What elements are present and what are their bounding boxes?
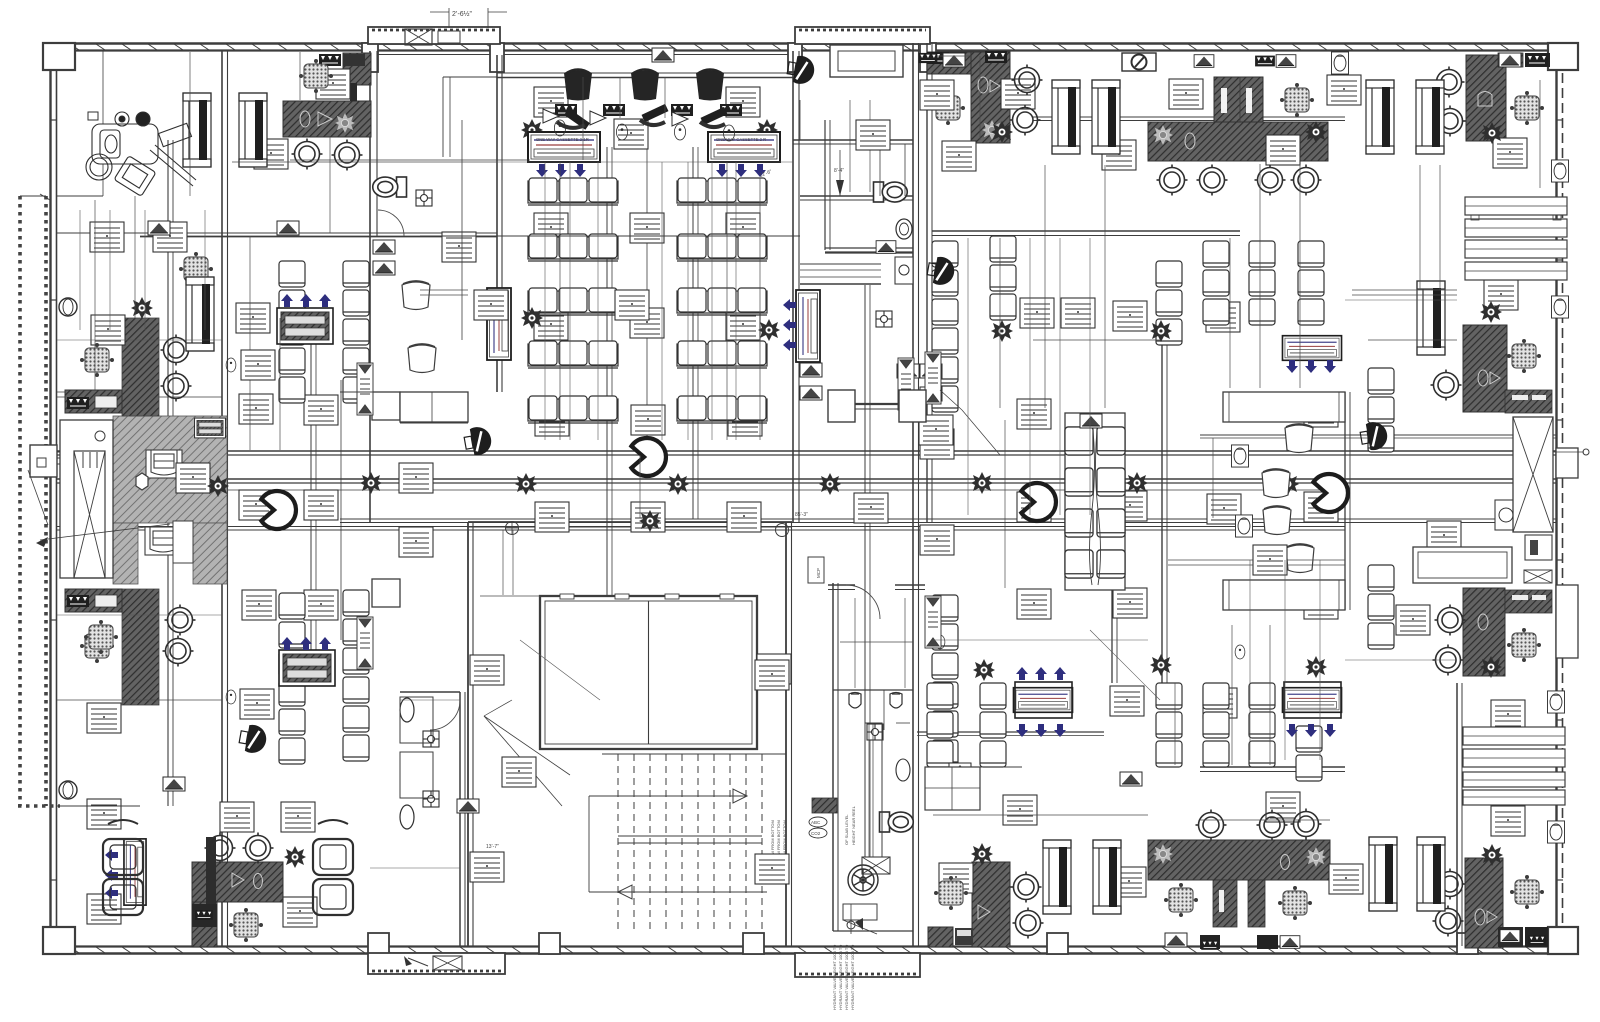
svg-text:MCP: MCP xyxy=(816,568,821,578)
airflow arrow xyxy=(105,887,118,899)
core wall x913 vertical xyxy=(912,43,914,946)
gray hatched zone lower-right xyxy=(193,523,227,584)
top wall column at x497 xyxy=(490,43,504,72)
shelf strip xyxy=(357,617,373,669)
desk xyxy=(942,141,976,171)
long table D2 left lower xyxy=(1223,580,1345,610)
stair arrow down xyxy=(618,885,632,899)
desk xyxy=(1112,867,1146,897)
bottom wall column xyxy=(743,933,764,954)
desk xyxy=(304,590,338,620)
small room box left-mid upper xyxy=(372,392,400,420)
desk xyxy=(854,493,888,523)
desk xyxy=(254,139,288,169)
bottom wall column xyxy=(1047,933,1068,954)
wall x1457 vertical xyxy=(1456,683,1458,946)
shelf strip xyxy=(357,363,373,415)
seat column xyxy=(1249,241,1275,267)
bottom wall column xyxy=(368,933,389,954)
dark chair blocks bottom right-wing xyxy=(1213,880,1237,927)
toilet bottom core xyxy=(880,812,914,832)
stair treads dashed xyxy=(617,754,619,934)
desk xyxy=(1327,75,1361,105)
drain bottom core xyxy=(867,724,883,740)
meeting table D2 xyxy=(1413,547,1512,583)
desk xyxy=(757,654,791,684)
desk xyxy=(1427,521,1461,551)
duct riser x647 xyxy=(646,120,648,455)
bottom core wall x833 xyxy=(832,583,834,931)
cassette D2 top xyxy=(1282,336,1341,361)
dark kitchen counter bottom-left-center xyxy=(192,862,283,902)
task chair xyxy=(1508,340,1541,373)
sprinkler rose xyxy=(991,121,1013,143)
desk xyxy=(534,87,568,117)
stair walk path xyxy=(589,795,747,797)
bathroom wall y250 xyxy=(825,247,913,249)
outer left wall xyxy=(49,43,51,948)
task chair xyxy=(1281,84,1314,117)
airflow arrow xyxy=(716,164,728,177)
stair flight boundary lines xyxy=(602,753,786,755)
wall x1345 vertical xyxy=(1344,392,1346,610)
desk xyxy=(535,406,569,436)
dark marker left of core xyxy=(812,798,837,813)
svg-text:HYDRANT VALVE HEIGHT 1000 TO: HYDRANT VALVE HEIGHT 1000 TO xyxy=(844,945,849,1010)
fan blob at core top xyxy=(786,54,817,86)
dark kitchen counter bottom-center xyxy=(972,862,1010,947)
airflow arrow xyxy=(555,164,567,177)
desk xyxy=(470,655,504,685)
duct riser x341 xyxy=(340,380,342,640)
diffuser xyxy=(373,240,395,254)
tiny marks left wall xyxy=(57,195,103,197)
sprinkler rose xyxy=(131,297,153,319)
seat column xyxy=(932,595,958,621)
diffuser xyxy=(1165,933,1187,947)
black chair top1 xyxy=(564,70,592,101)
corridor wall vertical x222 xyxy=(221,51,223,946)
desk xyxy=(399,527,433,557)
svg-text:85’-3”: 85’-3” xyxy=(795,512,808,518)
dark conference table center-right xyxy=(1148,122,1328,161)
armchair right 2 xyxy=(313,879,353,915)
ring table xyxy=(161,371,192,402)
dark equipment box upper-left xyxy=(65,390,122,413)
sprinkler rose xyxy=(758,319,780,341)
svg-text:CO2: CO2 xyxy=(811,831,821,836)
desk xyxy=(281,802,315,832)
framed opening xyxy=(186,277,214,351)
ring table xyxy=(1433,645,1464,676)
top wall column at x368 xyxy=(362,43,378,72)
framed opening xyxy=(1369,837,1397,911)
ring table xyxy=(205,833,236,864)
framed opening xyxy=(1092,80,1120,154)
urinal 1 xyxy=(849,693,861,709)
toilet left room xyxy=(373,177,407,197)
ceiling oval xyxy=(674,124,685,140)
sprinkler rose xyxy=(1480,656,1502,678)
sprinkler rose xyxy=(819,473,841,495)
grille xyxy=(671,104,693,116)
bottom protrusion room left xyxy=(368,953,505,974)
kitchen grille box xyxy=(192,904,217,927)
desk xyxy=(1266,792,1300,822)
ring table xyxy=(243,833,274,864)
airflow arrow xyxy=(574,164,586,177)
right external box lower xyxy=(1556,585,1578,658)
airflow arrow xyxy=(281,294,293,307)
bottom-left corner column xyxy=(43,927,75,954)
seat column xyxy=(1156,683,1182,709)
bottom protrusion room center xyxy=(795,953,920,977)
bottom wall column xyxy=(1457,933,1478,954)
urinal 2 xyxy=(890,693,902,709)
grille pair right of pantry xyxy=(943,53,965,67)
sprinkler rose xyxy=(1150,654,1172,676)
core door arc xyxy=(846,585,880,619)
dentist small equipment xyxy=(88,112,98,120)
armchair left 2 xyxy=(103,879,143,915)
misc line y392 xyxy=(340,391,400,393)
black chair top2 xyxy=(631,70,659,101)
seat column xyxy=(1249,683,1275,709)
column circle stair top-right xyxy=(776,524,789,537)
oval C2 xyxy=(935,635,945,649)
fine texture verticals left wing xyxy=(79,210,81,330)
outer top wall xyxy=(57,42,1563,45)
armchair right 1 xyxy=(313,839,353,875)
sprinkler rose xyxy=(1277,473,1299,495)
seat column xyxy=(1156,261,1182,287)
desk xyxy=(631,405,665,435)
wall light xyxy=(1548,691,1565,713)
grille boxes above dark cabinet xyxy=(319,54,341,66)
seat column xyxy=(932,241,958,267)
sink counter top core xyxy=(895,257,913,284)
ring table xyxy=(1291,809,1322,840)
diffuser xyxy=(277,221,299,235)
left wall lower tick xyxy=(57,805,140,807)
desk xyxy=(304,395,338,425)
dentist chair cluster xyxy=(86,112,196,196)
counter line C3 y767 xyxy=(925,766,1022,768)
elevator x-brace xyxy=(74,451,105,578)
chair xyxy=(1286,545,1314,573)
balcony connect marks xyxy=(40,194,50,200)
framed opening xyxy=(1043,840,1071,914)
core wall x927 vertical xyxy=(926,43,928,522)
desk xyxy=(1304,492,1338,522)
oval A3 xyxy=(226,690,236,704)
sprinkler rose xyxy=(1150,320,1172,342)
upper core riser pair xyxy=(799,100,801,140)
desk xyxy=(87,894,121,924)
chair xyxy=(402,282,430,310)
diffuser xyxy=(949,763,971,777)
dark tall cabinet right-top xyxy=(1466,55,1506,141)
bathroom wall y196 xyxy=(800,195,913,197)
long vertical x103 xyxy=(102,51,104,196)
task chair xyxy=(935,877,968,910)
diffuser xyxy=(897,364,919,378)
fan blob D2 xyxy=(1359,420,1390,452)
svg-text:8’-4”: 8’-4” xyxy=(834,168,844,174)
diffuser xyxy=(373,261,395,275)
dim arrow core xyxy=(839,150,841,196)
dark hatch band lower xyxy=(122,589,159,705)
task chair xyxy=(85,621,118,654)
top protrusion room left xyxy=(368,27,500,44)
ring table xyxy=(332,140,363,171)
armchair left 1 xyxy=(103,839,143,875)
sprinkler rose xyxy=(971,472,993,494)
desk xyxy=(153,222,187,252)
diffuser xyxy=(1120,772,1142,786)
task chair xyxy=(230,909,263,942)
wall light xyxy=(1332,52,1349,74)
wall horizontal y236 left xyxy=(57,232,497,234)
drain shower top core xyxy=(876,311,892,327)
desk xyxy=(90,222,124,252)
armchair right back xyxy=(318,820,348,824)
counter line y732 xyxy=(917,731,1104,733)
airflow arrow xyxy=(783,339,796,351)
room line B2 left2 xyxy=(400,454,420,456)
chair xyxy=(1263,507,1291,535)
svg-text:ONE WAY CASSETTE 2-1R: ONE WAY CASSETTE 2-1R xyxy=(536,137,589,142)
seat column xyxy=(1368,368,1394,394)
seat column xyxy=(343,590,369,616)
airflow arrow xyxy=(1054,724,1066,737)
diffuser xyxy=(457,799,479,813)
desk xyxy=(755,660,789,690)
elevator shaft outline xyxy=(60,420,113,578)
riser lines right wing xyxy=(999,238,1001,408)
box right D2b xyxy=(1525,535,1552,560)
framed opening xyxy=(1417,837,1445,911)
extra desks busy spots xyxy=(474,290,508,320)
airflow arrow xyxy=(281,637,293,650)
desk xyxy=(919,415,953,445)
room line B2 left xyxy=(400,422,468,424)
long table D2 left xyxy=(1223,392,1345,422)
airflow arrow xyxy=(1054,667,1066,680)
bathroom pipe band xyxy=(800,263,881,265)
framed opening xyxy=(1416,80,1444,154)
MCP label xyxy=(808,557,824,583)
bottom wall tick hatches xyxy=(70,947,79,953)
top wall column at x930 xyxy=(920,43,936,72)
dark bar in kitchen xyxy=(206,837,216,911)
dark corner units top-right xyxy=(1498,53,1523,67)
airflow arrow xyxy=(1016,724,1028,737)
sprinkler rose xyxy=(1126,472,1148,494)
x-box bottom core xyxy=(862,857,890,874)
outer bottom wall xyxy=(57,945,1563,947)
circle on left wall 2 xyxy=(59,781,77,799)
ring table xyxy=(1257,810,1288,841)
sprinkler rose xyxy=(521,119,543,141)
bottom wall column xyxy=(539,933,560,954)
desk xyxy=(1102,140,1136,170)
cassette double D3 xyxy=(1282,688,1341,713)
desk xyxy=(242,590,276,620)
svg-text:HYDRANT VALVE HEIGHT 1000 TO: HYDRANT VALVE HEIGHT 1000 TO xyxy=(850,945,855,1010)
desk xyxy=(1484,280,1518,310)
ring table xyxy=(1196,810,1227,841)
desk xyxy=(220,802,254,832)
stair leader lines xyxy=(484,716,570,775)
framed opening xyxy=(1093,840,1121,914)
sofa bench row xyxy=(528,341,618,368)
left external box xyxy=(30,445,57,477)
wall x1162 vertical xyxy=(1161,340,1163,683)
desk xyxy=(236,303,270,333)
desk xyxy=(1491,806,1525,836)
svg-text:HEIGHT NEAR REEL: HEIGHT NEAR REEL xyxy=(851,805,856,845)
bottom core bottom y931 xyxy=(833,930,913,932)
desk xyxy=(726,87,760,117)
drain B3 upper xyxy=(423,731,439,747)
desk xyxy=(399,463,433,493)
desk xyxy=(1329,864,1363,894)
fine texture verticals right wing xyxy=(967,238,969,515)
svg-text:OF SLAB LEVEL: OF SLAB LEVEL xyxy=(844,814,849,845)
desk xyxy=(1207,494,1241,524)
desk xyxy=(1113,301,1147,331)
fan coil unit upper xyxy=(146,450,182,478)
sprinkler rose xyxy=(971,843,993,865)
window sill marks right wall xyxy=(1556,119,1563,121)
sprinkler rose xyxy=(1480,301,1502,323)
desk xyxy=(1110,686,1144,716)
sink top core xyxy=(896,219,912,239)
ceiling oval xyxy=(616,124,627,140)
desk xyxy=(470,852,504,882)
misc vertical x462 xyxy=(461,120,463,340)
dark equipment box lower-left xyxy=(65,589,122,612)
sofa bench row xyxy=(677,288,767,315)
ring table xyxy=(1011,872,1042,903)
left bathroom wall x460 xyxy=(459,692,461,946)
stair void divider xyxy=(648,601,650,744)
airflow arrow xyxy=(105,869,118,881)
desk xyxy=(316,69,350,99)
top protrusion room right xyxy=(795,27,930,44)
desk xyxy=(1017,399,1051,429)
dark tall cabinet right bottom xyxy=(1465,858,1503,948)
desk xyxy=(502,757,536,787)
top wall tick hatches xyxy=(70,44,79,50)
desk xyxy=(1017,492,1051,522)
diffuser xyxy=(920,387,942,401)
cassette unit left xyxy=(528,132,600,162)
svg-text:HYDRANT VALVE HEIGHT 1000 TO: HYDRANT VALVE HEIGHT 1000 TO xyxy=(838,945,843,1010)
ring table xyxy=(1157,165,1188,196)
pac landmark xyxy=(1021,483,1056,521)
center diagonal leaders xyxy=(520,640,600,700)
small rect in top protrusion xyxy=(438,31,460,43)
misc long line A1b xyxy=(420,235,800,237)
sprinkler rose xyxy=(515,473,537,495)
sprinkler rose xyxy=(991,320,1013,342)
cassette V B2 xyxy=(487,288,511,360)
wall light xyxy=(1548,821,1565,843)
svg-text:2’-6½”: 2’-6½” xyxy=(452,10,473,18)
desk xyxy=(1491,700,1525,730)
seat column xyxy=(279,593,305,619)
armrest arcs top row xyxy=(557,122,585,128)
desk xyxy=(1001,79,1035,109)
airflow arrow xyxy=(1035,724,1047,737)
stair room right wall xyxy=(785,522,787,946)
wall light xyxy=(1552,160,1569,182)
task chair xyxy=(1508,629,1541,662)
ring table xyxy=(1291,165,1322,196)
table pair right 3 xyxy=(1463,727,1565,745)
small cassette in hatch zone xyxy=(195,418,226,438)
misc vertical x443 xyxy=(442,77,444,157)
chair xyxy=(1262,470,1290,498)
framed opening xyxy=(1417,281,1445,355)
diffuser xyxy=(1080,414,1102,428)
sprinkler rose xyxy=(1305,656,1327,678)
desk xyxy=(1304,589,1338,619)
desk xyxy=(630,308,664,338)
airflow arrow xyxy=(300,637,312,650)
sprinkler rose xyxy=(1481,122,1503,144)
slab band below top wall xyxy=(497,72,795,74)
pac landmark xyxy=(631,438,666,476)
fine texture horizontals xyxy=(933,639,1148,641)
airflow arrow xyxy=(735,164,747,177)
wall light xyxy=(1232,445,1249,467)
diffuser xyxy=(652,48,674,62)
ABC CO2 labels xyxy=(809,817,827,827)
desk xyxy=(176,463,210,493)
x-braced box in top protrusion xyxy=(405,29,432,45)
framed opening xyxy=(183,93,211,167)
stair room left wall xyxy=(467,522,469,946)
desk xyxy=(920,525,954,555)
ring table xyxy=(165,605,196,636)
sofa bench row xyxy=(528,396,618,423)
dark long bar bottom-right-wing xyxy=(1148,840,1330,880)
circle on left wall 1 xyxy=(59,298,77,316)
dark hatch band upper xyxy=(122,318,159,416)
task chair xyxy=(1279,887,1312,920)
desk xyxy=(239,394,273,424)
ring table xyxy=(1010,105,1041,136)
white utility box in hatch xyxy=(173,521,193,563)
airflow arrow xyxy=(783,319,796,331)
ring table xyxy=(1255,165,1286,196)
gray hatched zone lower-left xyxy=(113,523,138,584)
misc wall y77 left of core xyxy=(443,76,497,78)
outer right wall xyxy=(1555,43,1557,948)
column circle stair top-left xyxy=(506,522,519,535)
window sill marks left wall xyxy=(50,119,57,121)
shelf strip xyxy=(925,596,941,648)
desk xyxy=(726,310,760,340)
desk xyxy=(1266,135,1300,165)
left bathroom stalls xyxy=(400,697,433,743)
desk xyxy=(240,689,274,719)
stair room top wall xyxy=(468,521,792,523)
sink square B1 xyxy=(416,190,432,206)
